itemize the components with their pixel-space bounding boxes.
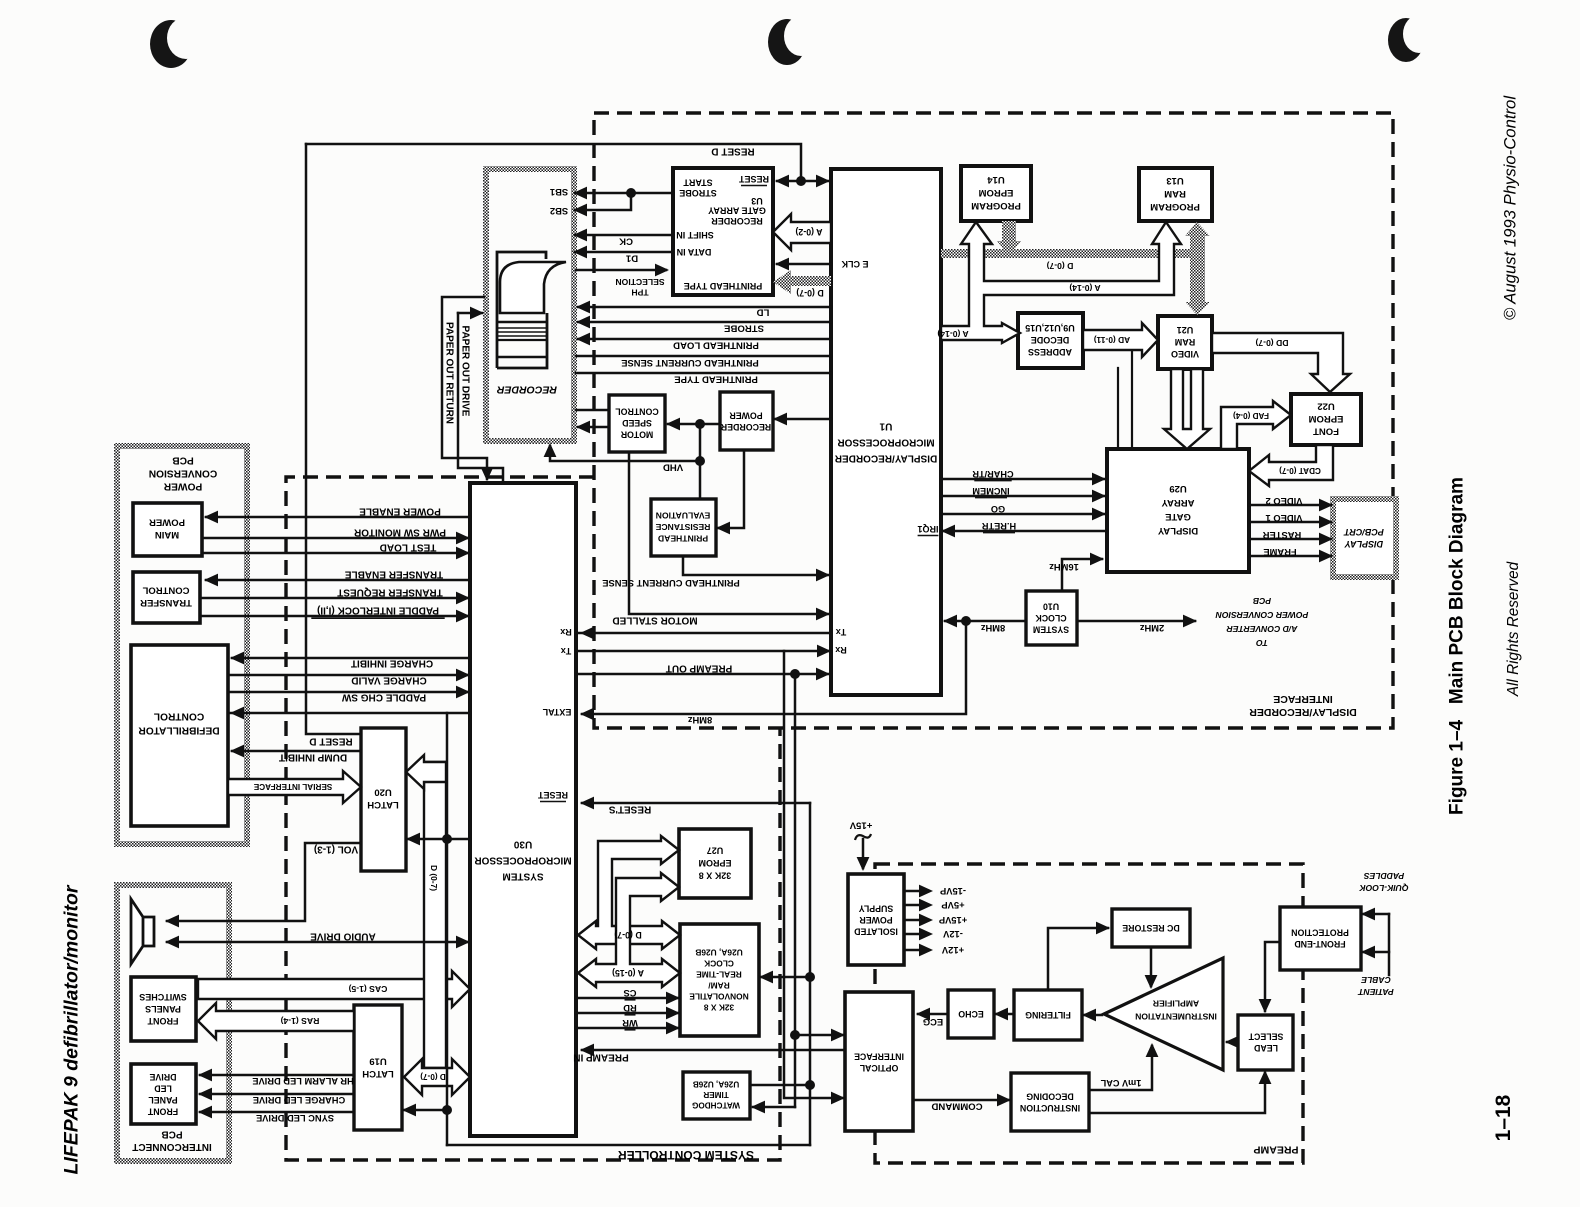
wire recorder power down to printhead resistance evaluation — [718, 450, 744, 528]
echo — [948, 990, 994, 1038]
svg-text:MOTOR STALLED: MOTOR STALLED — [612, 615, 697, 626]
wire CHARGE INHIBIT — [232, 657, 470, 660]
wire TRANSFER ENABLE — [206, 579, 470, 582]
svg-text:OPTICALINTERFACE: OPTICALINTERFACE — [854, 1051, 904, 1073]
svg-text:LD: LD — [757, 307, 770, 318]
wire Rx-Tx — [578, 632, 829, 635]
svg-text:COMMAND: COMMAND — [931, 1101, 982, 1112]
svg-text:HR ALARM LED DRIVE: HR ALARM LED DRIVE — [252, 1076, 353, 1086]
wire PRINTHEAD CURRENT SENSE top — [576, 355, 831, 358]
recorder stippled box — [486, 169, 574, 441]
svg-text:SERIAL INTERFACE: SERIAL INTERFACE — [253, 782, 332, 791]
system clock U10 — [1026, 591, 1077, 645]
svg-text:TOA/D CONVERTERPOWER CONVERSIO: TOA/D CONVERTERPOWER CONVERSIONPCB — [1215, 596, 1308, 648]
svg-text:All Rights Reserved: All Rights Reserved — [1505, 561, 1522, 697]
wire LD — [578, 306, 831, 309]
display/recorder microprocessor U1 — [831, 169, 941, 695]
wire SYNC LED DRIVE — [200, 1111, 354, 1114]
scan crescent mark left — [150, 20, 192, 68]
wire quik-look paddles — [1388, 914, 1391, 975]
svg-text:D (0-7): D (0-7) — [614, 930, 641, 940]
svg-text:CHARGE VALID: CHARGE VALID — [351, 675, 426, 686]
transfer control — [133, 572, 200, 623]
svg-text:QUIK-LOOKPADDLES: QUIK-LOOKPADDLES — [1359, 871, 1409, 893]
isolated power supply — [848, 874, 904, 965]
svg-text:Tx: Tx — [836, 627, 847, 637]
wire recorder power to U1 — [775, 418, 831, 421]
wire reset vertical net x810 — [809, 803, 812, 1145]
hollow bus CAS(1-5) switches to U30 — [198, 971, 470, 1007]
recorder power — [720, 392, 773, 450]
svg-text:FRONT-ENDPROTECTION: FRONT-ENDPROTECTION — [1291, 927, 1349, 949]
wire paper out return — [442, 297, 487, 479]
svg-text:A (0-2): A (0-2) — [795, 227, 822, 237]
wire 16MHz — [1062, 559, 1102, 591]
latch U19 — [354, 1005, 402, 1130]
wire RASTER — [1249, 538, 1331, 541]
svg-text:U3: U3 — [751, 196, 763, 206]
svg-text:8MHz: 8MHz — [980, 623, 1005, 634]
svg-text:Rx: Rx — [835, 645, 847, 655]
wire PWR SW MONITOR — [204, 537, 468, 540]
wire PADDLE INTERLOCK — [202, 615, 468, 618]
svg-text:DD (0-7): DD (0-7) — [1255, 338, 1288, 348]
svg-text:CK: CK — [619, 236, 633, 247]
svg-text:© August 1993 Physio-Control: © August 1993 Physio-Control — [1501, 95, 1520, 320]
svg-text:INSTRUCTIONDECODING: INSTRUCTIONDECODING — [1020, 1091, 1080, 1113]
svg-text:8MHz: 8MHz — [687, 715, 712, 726]
svg-text:ISOLATEDPOWERSUPPLY: ISOLATEDPOWERSUPPLY — [854, 904, 898, 937]
wire latch U20 enable — [408, 838, 447, 841]
instruction decoding — [1011, 1073, 1089, 1131]
svg-text:AUDIO DRIVE: AUDIO DRIVE — [310, 931, 376, 942]
instrumentation amplifier — [1104, 958, 1223, 1070]
svg-text:RESET: RESET — [738, 174, 769, 184]
svg-text:D (0-7): D (0-7) — [1046, 261, 1073, 271]
display/recorder interface dashed boundary — [594, 113, 1393, 728]
svg-text:E CLK: E CLK — [841, 259, 869, 269]
svg-text:RECORDER: RECORDER — [497, 383, 558, 395]
ad lines decode to U29 — [1117, 368, 1119, 449]
wire CHARGE LED DRIVE — [200, 1093, 354, 1096]
svg-text:PREAMP OUT: PREAMP OUT — [666, 663, 733, 674]
svg-text:VOL (1-3): VOL (1-3) — [314, 844, 358, 855]
svg-text:SYNC LED DRIVE: SYNC LED DRIVE — [256, 1113, 334, 1123]
wire VHD — [550, 446, 700, 461]
wire 2MHz — [1077, 620, 1195, 623]
filtering — [1014, 990, 1082, 1040]
svg-text:PRINTHEAD TYPE: PRINTHEAD TYPE — [684, 281, 763, 291]
display pcb/crt stippled box — [1333, 499, 1396, 577]
svg-text:STROBE: STROBE — [723, 323, 764, 334]
hollow bus DD(0-7) U21 to U22 — [1212, 333, 1350, 392]
hollow fork bus U21 to U29 — [1164, 369, 1210, 449]
wire E CLK U1 to U3 — [777, 263, 831, 266]
wire INCMEM — [941, 495, 1104, 498]
svg-text:A (0-15): A (0-15) — [612, 968, 644, 978]
wire 1mV CAL — [1089, 1046, 1152, 1090]
defibrillator control — [131, 645, 228, 826]
wire watchdog top stub — [750, 1084, 810, 1087]
wire defib line y713 — [230, 712, 470, 715]
svg-text:PADDLE CHG SW: PADDLE CHG SW — [341, 692, 426, 703]
svg-text:PRINTHEAD CURRENT SENSE: PRINTHEAD CURRENT SENSE — [602, 578, 740, 589]
svg-text:FRAME: FRAME — [1263, 547, 1296, 558]
svg-text:PRINTHEAD TYPE: PRINTHEAD TYPE — [674, 374, 758, 385]
svg-text:PWR SW MONITOR: PWR SW MONITOR — [353, 527, 446, 538]
wire FRAME — [1249, 555, 1331, 558]
svg-text:PAPER OUT RETURN: PAPER OUT RETURN — [444, 322, 455, 424]
main power — [133, 503, 202, 556]
svg-text:FILTERING: FILTERING — [1025, 1010, 1071, 1020]
svg-text:CAS (1-5): CAS (1-5) — [349, 984, 388, 994]
hollow bus arm to latch U20 — [406, 755, 446, 789]
svg-text:-15VP: -15VP — [940, 886, 966, 897]
system microprocessor U30 — [470, 483, 576, 1136]
svg-text:PAPER OUT DRIVE: PAPER OUT DRIVE — [460, 326, 471, 417]
wire STROBE — [578, 321, 831, 324]
svg-text:D1: D1 — [625, 253, 638, 264]
wire amp to filtering — [1084, 1014, 1102, 1017]
wire SB2 — [575, 193, 631, 210]
hollow bus CDAT(0-7) U22 to U29 — [1249, 445, 1333, 486]
wire E latch vertical x447 — [446, 713, 449, 1145]
svg-text:VIDEO 2: VIDEO 2 — [1266, 496, 1303, 507]
svg-text:CDAT (0-7): CDAT (0-7) — [1279, 466, 1321, 475]
hollow bus AD(0-11) decode to U21 — [1083, 323, 1158, 357]
wire PRINTHEAD LOAD — [578, 338, 831, 341]
wire +15V supply flag — [855, 834, 871, 840]
wire RESET D top net — [306, 144, 801, 181]
svg-text:ECG: ECG — [923, 1017, 943, 1028]
hollow bus D(0-7) vertical latch bus — [424, 762, 446, 1068]
svg-text:PREAMP IN: PREAMP IN — [573, 1052, 628, 1063]
svg-text:PREAMP: PREAMP — [1254, 1143, 1299, 1155]
program ram U13 — [1139, 168, 1212, 221]
wire paper out drive — [458, 312, 482, 315]
svg-text:WR: WR — [622, 1018, 638, 1029]
svg-text:LIFEPAK 9 defibrillator/monito: LIFEPAK 9 defibrillator/monitor — [61, 884, 83, 1174]
power conversion pcb stippled box — [117, 446, 247, 844]
wire 8MHz to EXTAL of U30 — [582, 621, 966, 714]
svg-text:INTERCONNECTPCB: INTERCONNECTPCB — [132, 1128, 211, 1152]
svg-text:RESET'S: RESET'S — [608, 804, 651, 815]
wire filtering to dc restore — [1048, 928, 1108, 990]
svg-text:TRANSFER ENABLE: TRANSFER ENABLE — [345, 569, 444, 580]
latch U20 — [361, 728, 406, 871]
svg-text:RESET D: RESET D — [309, 736, 352, 747]
svg-text:ECHO: ECHO — [958, 1009, 984, 1019]
wire TEST LOAD — [204, 552, 468, 555]
svg-text:+15V: +15V — [849, 820, 872, 831]
svg-text:RECORDERGATE ARRAY: RECORDERGATE ARRAY — [708, 206, 766, 227]
svg-text:RESET: RESET — [537, 790, 568, 800]
wire MOTOR STALLED — [629, 452, 828, 614]
hollow bus D(0-7) between U19 and U30 — [404, 1059, 470, 1095]
svg-text:PATIENTCABLE: PATIENTCABLE — [1358, 975, 1394, 997]
wire ECG — [918, 1013, 948, 1016]
svg-text:PRINTHEAD LOAD: PRINTHEAD LOAD — [673, 340, 759, 351]
wire 8MHz U10 to U1 — [945, 620, 1026, 623]
svg-text:RD: RD — [623, 1003, 637, 1014]
hollow bus A(0-15) U30 to U27 and nonvolatile ram — [578, 873, 680, 987]
wire POWER ENABLE — [206, 516, 470, 519]
svg-text:CHARGE INHIBIT: CHARGE INHIBIT — [351, 658, 433, 669]
wire bottom return loop — [447, 1144, 810, 1147]
interconnect pcb stippled box — [117, 885, 229, 1161]
wire H.RETR — [943, 530, 1107, 533]
wire TPH selection — [576, 269, 666, 272]
stippled data bus D(0-7) between U1, U14, U13, U21 — [941, 249, 1202, 258]
svg-text:AD (0-11): AD (0-11) — [1094, 335, 1131, 345]
wire DUMP INHIBIT — [232, 750, 361, 753]
wire CHARGE VALID — [228, 674, 468, 677]
video ram U21 — [1158, 316, 1212, 369]
wire GO — [941, 513, 1104, 516]
hollow bus D(0-7) U30 to U27 and nonvolatile ram — [578, 836, 680, 949]
svg-text:RASTER: RASTER — [1263, 530, 1302, 541]
hollow bus RAS(1-4) latch U19 to switches — [198, 1003, 354, 1039]
wire PREAMP IN — [582, 1049, 845, 1052]
svg-text:PADDLE INTERLOCK (I,II): PADDLE INTERLOCK (I,II) — [317, 605, 439, 616]
wire PREAMP OUT — [578, 673, 828, 676]
wire optical vertical x784 — [784, 651, 843, 1098]
svg-text:EXTAL: EXTAL — [542, 707, 571, 717]
svg-text:1mV CAL: 1mV CAL — [1100, 1078, 1141, 1088]
scan crescent mark middle — [768, 19, 806, 65]
svg-text:D (0-7): D (0-7) — [420, 1072, 446, 1081]
svg-text:+12V: +12V — [941, 945, 964, 956]
svg-text:RAS (1-4): RAS (1-4) — [281, 1016, 320, 1026]
svg-text:SB1: SB1 — [550, 187, 568, 198]
svg-text:VHD: VHD — [663, 462, 683, 473]
svg-text:+5VP: +5VP — [941, 900, 964, 911]
svg-text:PRINTHEAD CURRENT SENSE: PRINTHEAD CURRENT SENSE — [621, 358, 759, 369]
wire RESET D left vertical to latch U20 — [306, 144, 361, 734]
svg-text:ADDRESSDECODEU9,U12,U15: ADDRESSDECODEU9,U12,U15 — [1025, 323, 1075, 357]
svg-text:GO: GO — [991, 504, 1005, 514]
display gate array U29 — [1107, 449, 1249, 572]
hollow bus A(0-2) U1 to U3 — [773, 214, 831, 250]
svg-text:CHARGE LED DRIVE: CHARGE LED DRIVE — [253, 1095, 345, 1105]
wire TRANSFER REQUEST — [202, 597, 468, 600]
32K x 8 eprom U27 — [679, 829, 751, 898]
wire PADDLE CHG SW — [228, 691, 468, 694]
wire RESET'S — [582, 802, 810, 805]
wire HR ALARM LED DRIVE — [200, 1074, 354, 1077]
wire watchdog arrow — [753, 1106, 795, 1109]
wire dc restore to amp — [1150, 947, 1153, 986]
stippled bus D(0-7) from U1 to U3 — [789, 276, 831, 286]
nonvolatile ram / real-time clock U26A U26B — [680, 924, 759, 1036]
wire CS — [576, 997, 678, 1000]
system controller dashed boundary — [286, 477, 780, 1160]
wire VOL (1-3) — [167, 843, 361, 921]
scan crescent mark right — [1388, 18, 1424, 62]
svg-text:SHIFT IN: SHIFT IN — [676, 230, 714, 240]
svg-text:2MHz: 2MHz — [1139, 623, 1164, 634]
svg-text:TRANSFERCONTROL: TRANSFERCONTROL — [140, 585, 192, 609]
svg-text:1–18: 1–18 — [1492, 1094, 1515, 1141]
recorder gate array U3 — [673, 168, 773, 295]
wire CK shift in — [575, 234, 673, 237]
wire into optical interface — [795, 1034, 843, 1037]
svg-text:Tx: Tx — [561, 646, 572, 656]
font eprom U22 — [1291, 394, 1361, 445]
svg-text:IRQ1: IRQ1 — [917, 524, 938, 534]
svg-text:SYSTEM CONTROLLER: SYSTEM CONTROLLER — [618, 1148, 754, 1162]
front-end protection — [1280, 907, 1361, 970]
svg-text:Rx: Rx — [560, 627, 572, 637]
wire VIDEO 2 — [1249, 504, 1331, 507]
wire latch U19 enable — [404, 1109, 447, 1112]
svg-text:DC RESTORE: DC RESTORE — [1122, 923, 1180, 933]
hollow bus FAD(0-4) U29 to U22 — [1221, 401, 1291, 449]
svg-text:POWER ENABLE: POWER ENABLE — [359, 506, 441, 517]
svg-text:+15VP: +15VP — [939, 915, 967, 926]
wire recorder power to motor speed control — [668, 423, 720, 426]
wire filtering to echo — [996, 1013, 1014, 1016]
preamp dashed boundary — [875, 864, 1303, 1163]
svg-text:DATA IN: DATA IN — [677, 247, 712, 257]
hollow bus SERIAL INTERFACE defib to latch U20 — [228, 771, 361, 803]
svg-text:FAD (0-4): FAD (0-4) — [1233, 411, 1269, 420]
svg-text:VIDEO 1: VIDEO 1 — [1266, 513, 1303, 524]
svg-text:TPHSELECTION: TPHSELECTION — [615, 277, 664, 298]
wire front-end protection to lead select — [1265, 942, 1280, 1011]
wire reset to nonvolatile ram — [761, 976, 810, 979]
svg-text:TRANSFER REQUEST: TRANSFER REQUEST — [337, 587, 443, 598]
svg-text:PRINTHEADRESISTANCEEVALUATION: PRINTHEADRESISTANCEEVALUATION — [655, 511, 710, 544]
address decode U9,U12,U15 — [1018, 313, 1083, 368]
watchdog timer U26A U26B — [683, 1072, 750, 1119]
isolated power supply outputs — [904, 890, 928, 893]
wire instruction decoding to lead select — [1089, 1073, 1265, 1113]
svg-text:RESET D: RESET D — [711, 146, 754, 157]
svg-text:H.RETR: H.RETR — [982, 521, 1017, 531]
wire motor speed control to recorder — [576, 409, 609, 412]
wire preamp out vertical x795 — [794, 674, 797, 1107]
wire SB1 — [575, 192, 673, 195]
svg-text:D (0-7): D (0-7) — [796, 288, 823, 298]
wire RD — [576, 1012, 678, 1015]
wire VIDEO 1 — [1249, 521, 1331, 524]
wire Tx-Rx — [578, 650, 829, 653]
wire PRINTHEAD TYPE — [576, 372, 831, 375]
motor speed control — [609, 395, 665, 452]
wire lead select to amp — [1227, 1041, 1238, 1044]
svg-text:16MHz: 16MHz — [1049, 562, 1079, 573]
svg-text:CS: CS — [623, 988, 636, 999]
speaker — [131, 899, 154, 964]
svg-text:TEST LOAD: TEST LOAD — [380, 542, 437, 553]
svg-text:-12V: -12V — [942, 929, 963, 940]
svg-text:D (0-7): D (0-7) — [429, 865, 439, 891]
wire CHAR/TR — [941, 478, 1104, 481]
svg-text:Figure 1–4 Main PCB Block Di: Figure 1–4 Main PCB Block Diagram — [1447, 477, 1468, 815]
program eprom U14 — [961, 166, 1031, 221]
svg-text:STROBESTART: STROBESTART — [679, 178, 717, 199]
wire COMMAND — [913, 1099, 1009, 1102]
svg-text:A (0-14): A (0-14) — [937, 329, 968, 339]
svg-text:DUMP INHIBIT: DUMP INHIBIT — [279, 752, 347, 763]
optical interface — [845, 992, 913, 1131]
svg-text:POWERCONVERSIONPCB: POWERCONVERSIONPCB — [149, 455, 218, 492]
recorder paper chart icon — [497, 252, 546, 368]
wire recorder power junction down to printhead resistance evaluation — [699, 424, 702, 499]
svg-text:CHAR/TR: CHAR/TR — [972, 469, 1014, 479]
svg-text:A (0-14): A (0-14) — [1069, 283, 1100, 293]
hollow address bus A(0-14) to U14, U13, address decode — [941, 222, 1181, 343]
printhead resistance evaluation — [651, 499, 716, 556]
svg-text:DISPLAY/RECORDERINTERFACE: DISPLAY/RECORDERINTERFACE — [1249, 693, 1357, 718]
front panels switches — [131, 977, 196, 1041]
front panel led drive — [131, 1064, 196, 1124]
wire WR — [576, 1027, 678, 1030]
wire D1 data in — [575, 251, 673, 254]
svg-text:INCMEM: INCMEM — [972, 486, 1010, 496]
wire AUDIO DRIVE — [167, 941, 468, 944]
svg-text:SB2: SB2 — [550, 206, 568, 217]
dc restore — [1112, 909, 1190, 947]
lead select — [1238, 1015, 1293, 1070]
wire printhead current sense lower — [683, 556, 828, 575]
